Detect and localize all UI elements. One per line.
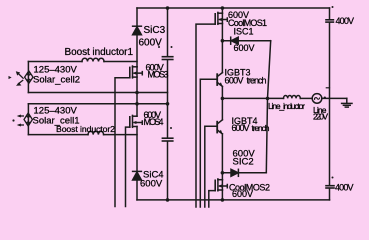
node bottom-bus / mid-cap	[166, 198, 170, 202]
ground	[342, 98, 352, 107]
wire IGBT3 gate	[200, 79, 217, 207]
wire stub left of right column	[326, 87, 329, 89]
wire SiC3 top segment	[136, 8, 138, 26]
svg-text:600V: 600V	[140, 179, 163, 190]
svg-text:600V: 600V	[225, 76, 244, 86]
wire MOS3 drain-source main	[136, 67, 138, 93]
transistor CoolMOS2	[215, 179, 227, 191]
wire ISC1 horizontal	[222, 40, 270, 42]
wire IGBT4 emitter down	[221, 134, 223, 180]
svg-text:400V: 400V	[336, 16, 355, 26]
svg-text:trench: trench	[247, 76, 267, 86]
wire top DC bus	[137, 7, 330, 9]
transistor CoolMOS1	[215, 8, 227, 24]
wire inductor1 to node A	[104, 61, 137, 63]
wire midpoint to line inductor	[222, 97, 283, 99]
wire MOS4 source down	[136, 127, 138, 172]
capacitor C-mid-upper	[162, 57, 172, 60]
wire box2 left edge	[27, 62, 29, 93]
svg-text:600V: 600V	[234, 43, 255, 53]
inductor Boost-inductor2	[88, 131, 104, 134]
speck right of upper mid-cap	[171, 46, 173, 48]
node bottom-bus / CoolMOS2	[221, 198, 225, 202]
transistor MOS3	[130, 66, 143, 78]
solar cell Solar_cell1 symbol	[12, 113, 32, 127]
capacitor C-bottom 400V	[326, 186, 334, 188]
solar cell Solar_cell2 symbol	[9, 71, 34, 86]
wire MOS3 gate	[115, 78, 130, 207]
wire ISC1 branch down	[268, 41, 271, 99]
wire box1 top edge rail	[28, 103, 167, 105]
svg-text:Boost inductor1: Boost inductor1	[65, 47, 134, 58]
svg-text:SiC3: SiC3	[144, 25, 166, 36]
wire CoolMOS2 gate	[209, 191, 215, 207]
node ISC1/SiC2 branch on output wire	[266, 97, 270, 101]
svg-text:SIC2: SIC2	[233, 157, 254, 168]
speck left of upper mid-cap	[158, 46, 160, 48]
wire SiC3 anode to node A	[136, 35, 138, 67]
transistor IGBT3	[217, 73, 223, 87]
node AC line neutral	[324, 97, 326, 99]
capacitor C-mid-lower	[162, 138, 172, 141]
wire IGBT4 gate	[205, 126, 217, 207]
svg-text:MOS3: MOS3	[148, 70, 169, 80]
svg-text:600V: 600V	[232, 123, 250, 133]
svg-text:Boost inductor2: Boost inductor2	[56, 124, 115, 134]
wire IGBT3 emitter to midpoint	[221, 86, 223, 119]
svg-text:600V: 600V	[232, 189, 253, 199]
wire box1 left edge	[27, 104, 29, 135]
wire inductor2 to column	[104, 134, 137, 136]
node inverter midpoint	[221, 97, 225, 101]
node SiC2 tap	[221, 171, 225, 175]
svg-text:trench: trench	[252, 123, 270, 133]
wire mid-cap column top	[167, 8, 169, 56]
speck near lower mid-cap	[170, 127, 172, 129]
wire SiC4 anode to bottom bus	[136, 180, 138, 200]
node MOS4 drain rail	[135, 102, 139, 106]
wire right bus column lower	[329, 189, 331, 200]
capacitor C-top 400V	[326, 20, 333, 22]
AC source Line 220V	[312, 94, 322, 104]
wire right bus column upper	[329, 8, 331, 19]
wire SiC2 branch up	[266, 98, 267, 172]
inductor Boost-inductor1	[82, 58, 104, 61]
inductor Line-inductor	[284, 95, 301, 98]
speck above bottom-right cap	[332, 177, 334, 179]
diode SiC2	[231, 169, 238, 176]
transistor MOS4	[130, 115, 143, 127]
wire SiC2 horizontal	[222, 172, 266, 174]
svg-text:Solar_cell2: Solar_cell2	[33, 75, 80, 86]
wire box2 top edge with boost inductor1	[28, 61, 82, 63]
wire right bus column middle	[329, 23, 331, 186]
wire mid-cap column middle	[167, 60, 169, 138]
node MOS3 source rail	[135, 91, 139, 95]
wire CoolMOS1 source to ISC1 node	[221, 24, 223, 73]
diode ISC1	[231, 37, 239, 44]
wire AC source to ground	[322, 97, 347, 99]
diode SiC4	[133, 171, 142, 180]
svg-text:600V: 600V	[139, 38, 163, 49]
wire box1 bottom edge	[28, 134, 88, 136]
svg-text:400V: 400V	[335, 183, 354, 193]
svg-text:ISC1: ISC1	[234, 27, 254, 37]
wire mid-cap column bottom	[167, 142, 169, 200]
wire MOS4 gate	[126, 127, 130, 206]
transistor IGBT4	[217, 120, 223, 134]
diode SiC3	[133, 26, 142, 35]
wire box2 bottom edge rail	[28, 92, 167, 94]
node rail / mid-cap column	[166, 102, 170, 106]
wire CoolMOS1 gate	[196, 24, 215, 207]
node ISC1 tap	[221, 39, 225, 43]
svg-text:MOS4: MOS4	[144, 117, 164, 127]
svg-text:Line_inductor: Line_inductor	[268, 101, 305, 111]
wire line inductor to AC source	[300, 97, 312, 99]
speck near top-right corner	[332, 6, 334, 8]
node top-bus / mid-cap	[166, 6, 170, 10]
node top-bus / CoolMOS1	[221, 6, 225, 10]
wire bottom DC bus	[137, 199, 330, 201]
svg-text:220V: 220V	[313, 112, 328, 122]
wire MOS3 source to MOS4 drain	[136, 93, 138, 117]
wire CoolMOS2 source to bottom bus	[221, 190, 223, 200]
